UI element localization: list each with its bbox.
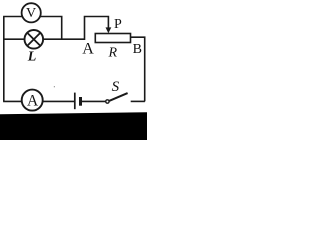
svg-text:L: L xyxy=(27,50,37,65)
wire: rheostat B terminal to right vertical bus xyxy=(131,37,145,101)
svg-text:V: V xyxy=(26,6,36,21)
ammeter circle xyxy=(22,90,43,111)
battery long plate xyxy=(74,93,76,110)
svg-text:P: P xyxy=(114,17,122,32)
svg-text:A: A xyxy=(82,41,94,58)
wire: battery to switch xyxy=(82,100,105,102)
svg-text:A: A xyxy=(27,93,39,110)
voltmeter circle xyxy=(22,3,41,22)
svg-text:R: R xyxy=(108,46,118,61)
wire: top-left to voltmeter xyxy=(3,16,22,18)
slider arrowhead xyxy=(106,27,112,33)
wire: left vertical bus xyxy=(3,17,5,102)
ink speck xyxy=(54,86,55,87)
switch pivot xyxy=(106,100,109,103)
wire: voltmeter right, down to lamp node xyxy=(41,17,62,40)
wire: left bus to lamp xyxy=(3,38,25,40)
lamp cross xyxy=(27,33,40,46)
bottom black bar xyxy=(0,112,147,140)
wire: switch to right bus xyxy=(131,100,145,102)
switch lever xyxy=(109,93,127,101)
wire: ammeter to battery xyxy=(42,100,74,102)
svg-text:S: S xyxy=(112,79,120,95)
wire: bottom left to ammeter xyxy=(3,100,22,102)
lamp circle xyxy=(25,30,44,49)
wire: lamp right, step up, to rheostat slider xyxy=(43,17,109,40)
svg-text:B: B xyxy=(133,42,142,57)
resistor R box xyxy=(95,34,130,43)
battery short plate xyxy=(79,97,82,106)
